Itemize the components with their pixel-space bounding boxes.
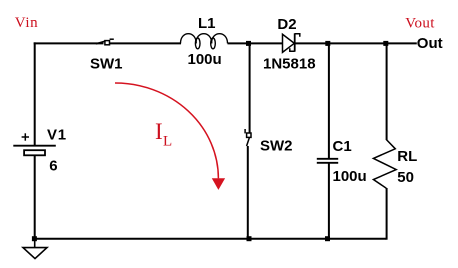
wire between L1 and D2 [228,42,283,44]
svg-text:100u: 100u [333,168,367,185]
svg-text:SW1: SW1 [90,55,123,72]
svg-text:Vin: Vin [15,15,39,31]
wire RL branch upper [386,43,388,140]
node junction at D2/C1 [325,41,330,46]
wire C1 branch lower [328,164,330,240]
switch SW2 [245,129,251,146]
svg-text:L1: L1 [198,15,216,32]
svg-text:L: L [163,133,172,149]
node junction at Vout/RL [383,41,388,46]
switch SW1 [96,39,114,45]
resistor RL zigzag [373,140,396,189]
svg-text:I: I [155,119,163,144]
node junction bottom C1 [325,236,330,241]
wire left rail upper (Vin down to battery) [34,42,36,145]
inductor L1 [181,34,228,49]
svg-text:1N5818: 1N5818 [263,55,316,72]
svg-text:Vout: Vout [405,16,435,32]
node junction at L1/SW2 [246,41,251,46]
wire SW2 branch lower [247,146,249,239]
wire C1 branch upper [328,43,330,158]
node junction bottom-left [32,236,37,241]
capacitor C1 [317,159,338,163]
svg-text:C1: C1 [333,138,352,155]
bottom rail wire [34,238,386,240]
wire top rail left segment [34,42,104,44]
svg-text:Out: Out [417,35,443,52]
svg-text:RL: RL [397,148,417,165]
svg-text:6: 6 [49,157,57,174]
wire D2 to Out [295,42,417,44]
wire between SW1 and L1 [110,42,181,44]
wire SW2 branch upper [249,43,251,133]
svg-text:D2: D2 [277,16,296,33]
ground [23,240,47,259]
diode D2 1N5818 [283,33,300,52]
node junction bottom SW2 [247,236,252,241]
svg-text:SW2: SW2 [260,138,293,155]
wire RL branch lower [386,188,388,240]
battery V1 [13,133,56,155]
current arrow IL [115,83,225,190]
svg-text:100u: 100u [188,51,222,68]
svg-text:50: 50 [397,169,414,186]
svg-text:V1: V1 [47,127,67,144]
wire left rail lower (battery to ground rail) [34,155,36,239]
